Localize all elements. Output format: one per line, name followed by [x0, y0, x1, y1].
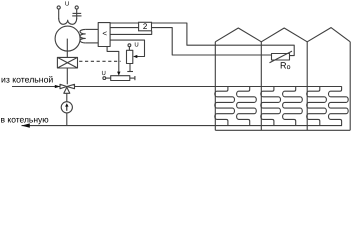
svg-text:<: <	[102, 29, 107, 38]
svg-text:из котельной: из котельной	[1, 75, 53, 85]
svg-text:o: o	[287, 64, 291, 71]
svg-text:2: 2	[143, 22, 148, 31]
svg-text:U: U	[134, 41, 138, 48]
svg-text:U: U	[65, 1, 69, 8]
svg-text:в котельную: в котельную	[1, 115, 50, 125]
svg-text:U: U	[102, 70, 106, 77]
